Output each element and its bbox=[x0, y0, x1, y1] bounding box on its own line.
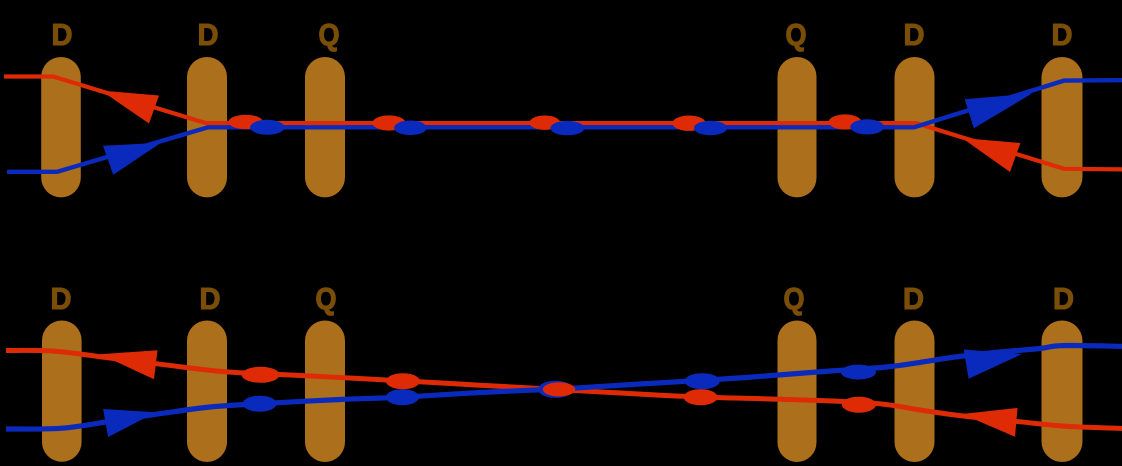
svg-text:D: D bbox=[51, 282, 72, 316]
wire red beam top bbox=[4, 77, 1122, 170]
bunch blue center bottom bbox=[538, 381, 573, 398]
wire blue beam top bbox=[7, 80, 1122, 172]
bunch red 3 top bbox=[529, 116, 560, 130]
arrowhead red bottom-left bbox=[100, 350, 158, 379]
arrowhead blue bottom-left bbox=[103, 409, 156, 437]
svg-text:D: D bbox=[198, 18, 219, 52]
svg-text:D: D bbox=[52, 18, 73, 52]
arrowhead red bottom-right bbox=[962, 408, 1018, 437]
bunch blue 2 top bbox=[394, 121, 427, 136]
bunch red R2 bottom bbox=[842, 397, 876, 413]
svg-text:D: D bbox=[1052, 18, 1073, 52]
bunch blue 5 top bbox=[850, 119, 884, 134]
bunch blue 3 top bbox=[550, 121, 584, 135]
arrowhead red top-right bbox=[962, 138, 1020, 172]
magnet D5 bottom bbox=[895, 321, 935, 463]
svg-text:Q: Q bbox=[319, 18, 340, 52]
magnet D2 bottom bbox=[187, 321, 227, 463]
magnet D1 bottom bbox=[42, 321, 82, 462]
svg-text:D: D bbox=[904, 18, 925, 52]
magnet Q3 top bbox=[305, 57, 345, 197]
arrowhead red top-left bbox=[101, 91, 159, 124]
magnet D6 top bbox=[1042, 57, 1083, 197]
svg-text:Q: Q bbox=[786, 18, 807, 52]
arrowhead blue top-left bbox=[103, 143, 161, 175]
svg-text:Q: Q bbox=[316, 282, 337, 316]
svg-text:D: D bbox=[200, 282, 221, 316]
svg-text:Q: Q bbox=[784, 282, 805, 316]
bunch blue 4 top bbox=[694, 121, 727, 135]
wire red beam bottom bbox=[6, 350, 1122, 428]
bunch red L1 bottom bbox=[242, 367, 280, 383]
svg-text:D: D bbox=[903, 282, 924, 316]
bunch red R1 bottom bbox=[684, 389, 718, 405]
wire blue beam bottom bbox=[6, 346, 1122, 430]
bunch blue R2 bottom bbox=[841, 365, 876, 380]
bunch blue 1 top bbox=[250, 120, 284, 135]
magnet D2 top bbox=[187, 57, 227, 197]
bunch red 2 top bbox=[372, 115, 405, 130]
magnet Q4 bottom bbox=[778, 321, 817, 463]
bunch blue L2 bottom bbox=[386, 389, 419, 405]
arrowhead blue bottom-right bbox=[964, 350, 1022, 379]
bunch red 4 top bbox=[672, 116, 705, 131]
bunch blue R1 bottom bbox=[685, 373, 720, 389]
magnet D5 top bbox=[895, 57, 935, 197]
bunch red center bottom bbox=[543, 382, 575, 396]
bunch red 1 top bbox=[228, 115, 263, 129]
magnet Q4 top bbox=[778, 57, 817, 197]
magnet D6 bottom bbox=[1042, 321, 1083, 463]
magnet D1 top bbox=[41, 57, 81, 197]
magnet Q3 bottom bbox=[305, 321, 345, 463]
bunch red L2 bottom bbox=[386, 373, 420, 389]
bunch blue L1 bottom bbox=[243, 396, 277, 412]
svg-text:D: D bbox=[1053, 282, 1074, 316]
bunch red 5 top bbox=[829, 114, 862, 129]
arrowhead blue top-right bbox=[965, 94, 1032, 129]
